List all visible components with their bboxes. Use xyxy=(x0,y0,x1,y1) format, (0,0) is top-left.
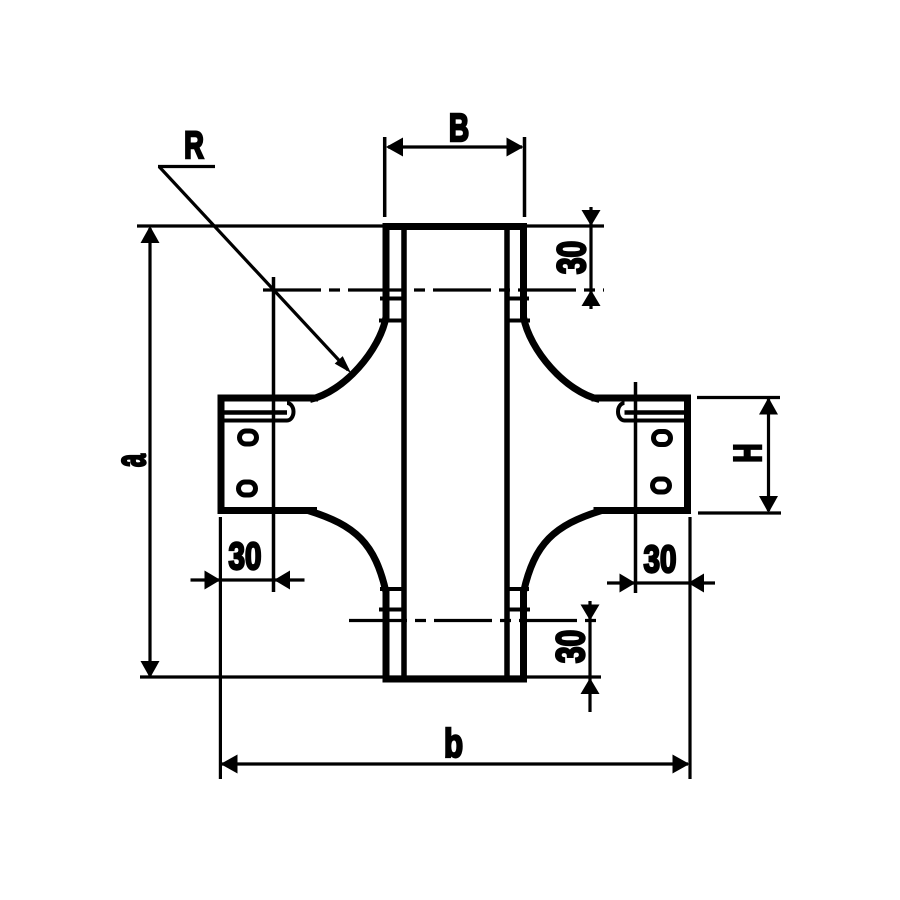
arrowhead B left xyxy=(386,138,403,157)
arrowhead a top xyxy=(141,226,160,243)
rung marks upper-left xyxy=(379,299,404,321)
svg-text:30: 30 xyxy=(550,241,594,274)
arrowhead 30 top-right lower xyxy=(582,290,601,306)
fillet upper-left (R circle about cross 273.5,290) xyxy=(310,317,386,400)
column bottom edge xyxy=(383,676,528,683)
arrowhead H bottom xyxy=(759,496,778,513)
svg-text:30: 30 xyxy=(644,539,677,581)
hole right arm upper xyxy=(654,432,671,445)
wire: vertical extension line through left arm x=273.5 xyxy=(272,277,276,592)
fillet upper-right (circle about 637,290) xyxy=(524,317,600,400)
leader R: diagonal line xyxy=(159,167,348,371)
left arm left edge xyxy=(218,395,225,515)
arrowhead 30 right-arm left xyxy=(620,574,636,593)
bend line right x=507 xyxy=(504,226,510,679)
wire: vertical extension line through right arm x=635.5 xyxy=(634,382,638,593)
svg-text:R: R xyxy=(184,125,204,167)
hole left arm lower xyxy=(239,482,256,495)
arrowhead b right xyxy=(673,755,690,774)
arrowhead 30 bottom-right lower xyxy=(581,678,600,694)
svg-text:a: a xyxy=(108,453,155,467)
arrowhead H top xyxy=(759,398,778,415)
column top edge xyxy=(383,223,528,230)
hole left arm upper xyxy=(240,431,257,444)
dimension B line with arrows xyxy=(388,145,522,148)
fillet lower-left (circle about 273.5,620.5) xyxy=(308,511,386,593)
dimension 30 top-right: line and outside arrows xyxy=(589,207,592,309)
arrowhead 30 top-right upper xyxy=(582,210,601,226)
leader R: arrowhead xyxy=(335,356,351,373)
svg-text:B: B xyxy=(449,107,469,151)
column left outer line upper xyxy=(383,223,390,321)
dimension H extension lines xyxy=(697,396,780,399)
rung marks upper-right xyxy=(507,299,530,321)
svg-text:b: b xyxy=(444,721,463,766)
node: horizontal centerline top (dash-dot) xyxy=(263,288,604,291)
dimension a line with arrows xyxy=(148,228,151,676)
wire: bottom edge extension line a xyxy=(140,675,601,678)
arrowhead 30 right-arm right xyxy=(688,574,704,593)
bend line left x=404 xyxy=(401,226,407,679)
dimension b extension lines xyxy=(219,517,222,779)
right arm right edge xyxy=(684,395,691,515)
svg-text:30: 30 xyxy=(549,630,593,663)
column left outer line lower xyxy=(383,589,390,683)
svg-text:30: 30 xyxy=(229,536,262,578)
arrowhead 30 bottom-right upper xyxy=(581,605,600,621)
dimension b line with arrows xyxy=(222,762,688,765)
arrowhead B right xyxy=(507,138,524,157)
leader R: horizontal bar xyxy=(158,165,215,168)
column right outer line lower xyxy=(520,589,527,683)
left arm bottom edge xyxy=(218,507,318,514)
wire: top edge extension line a xyxy=(137,224,604,227)
rung marks lower-left xyxy=(379,589,404,610)
arrowhead 30 bottom-left left xyxy=(205,571,221,590)
svg-text:H: H xyxy=(727,443,770,462)
right arm bottom edge xyxy=(594,507,692,514)
dimension 30 bottom-right: line and outside arrows xyxy=(588,601,591,712)
arrowhead 30 bottom-left right xyxy=(274,571,290,590)
node: horizontal centerline bottom (dash-dot) xyxy=(349,619,604,622)
hole right arm lower xyxy=(653,479,670,492)
dimension B extension lines xyxy=(383,137,387,217)
left arm top edge xyxy=(218,395,319,402)
hem lines left arm xyxy=(225,403,294,421)
fillet lower-right (circle about 637,620.5) xyxy=(524,511,602,593)
dimension 30 bottom-left: line and outside arrows xyxy=(191,578,305,581)
hem lines right arm xyxy=(618,403,684,421)
dimension 30 right-arm: line and outside arrows xyxy=(607,581,715,584)
column right outer line upper xyxy=(520,223,527,321)
rung marks lower-right xyxy=(507,589,530,610)
arrowhead a bottom xyxy=(141,661,160,678)
right arm top edge xyxy=(592,395,692,402)
part outline: cross-shaped blank xyxy=(218,223,692,683)
dimension H line with arrows xyxy=(767,399,770,511)
arrowhead b left xyxy=(221,755,238,774)
